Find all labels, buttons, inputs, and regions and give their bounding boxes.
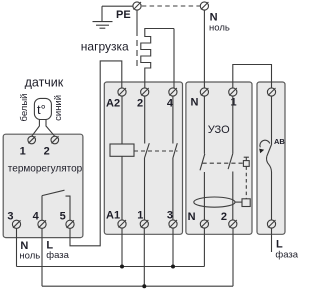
svg-text:2: 2 — [221, 211, 227, 223]
wire breaker bottom stub — [271, 228, 273, 252]
RCD pole 2 — [228, 96, 233, 220]
RCD (УЗО) box — [186, 82, 252, 234]
contactor terminal A1 — [118, 220, 126, 228]
mechanical link dashed — [134, 150, 178, 152]
dashed wire PE to N — [142, 5, 200, 7]
breaker terminal top — [267, 88, 275, 96]
svg-text:ноль: ноль — [19, 251, 40, 262]
wire RCD 1 to breaker top — [233, 65, 272, 88]
contactor terminal 3 — [169, 220, 177, 228]
svg-text:фаза: фаза — [46, 250, 69, 261]
junction A1-N bus — [120, 265, 124, 269]
wire therm3 drop — [16, 228, 18, 266]
terminal 4 — [38, 220, 46, 228]
heating cable meander — [141, 29, 174, 89]
svg-text:A1: A1 — [106, 209, 120, 221]
contactor contact pole 4-3 — [173, 96, 177, 220]
sensor terminal 2 — [51, 136, 59, 144]
wire pole1 drop — [143, 228, 145, 286]
wire ground to PE terminal — [102, 5, 133, 7]
RCD terminal 1 — [229, 88, 237, 96]
svg-text:N: N — [191, 97, 199, 109]
trip unit square — [242, 199, 250, 207]
terminal 5 — [66, 220, 74, 228]
svg-text:PE: PE — [116, 9, 131, 21]
svg-text:1: 1 — [20, 146, 26, 158]
svg-text:1: 1 — [137, 209, 143, 221]
svg-text:3: 3 — [167, 209, 173, 221]
RCD terminal N top — [200, 88, 208, 96]
svg-text:ноль: ноль — [209, 22, 230, 33]
svg-text:терморегулятор: терморегулятор — [8, 163, 83, 174]
sensor terminal 1 — [28, 136, 36, 144]
wire N bus rise to RCD N — [203, 228, 205, 266]
terminal 3 — [12, 220, 20, 228]
RCD mechanical link dashed — [203, 162, 244, 164]
svg-text:фаза: фаза — [275, 250, 298, 261]
svg-text:белый: белый — [19, 94, 30, 122]
wire L bus — [42, 285, 233, 287]
RCD test button — [243, 157, 249, 166]
wire therm4 drop — [41, 228, 43, 286]
svg-text:t°: t° — [37, 102, 46, 117]
thermostat relay contact 4-5 — [42, 190, 70, 220]
wire pole3 drop — [172, 228, 174, 266]
terminal N top — [200, 2, 208, 10]
svg-text:УЗО: УЗО — [208, 124, 230, 136]
dashed link to trip unit — [245, 166, 247, 198]
contactor contact pole 2-1 — [145, 96, 150, 220]
contactor box — [104, 82, 182, 234]
load phase wire loop therm5 to A2 — [70, 61, 122, 246]
RCD terminal N bottom — [200, 220, 208, 228]
wire PE shield drop — [136, 10, 138, 30]
sensor bulb t° — [32, 98, 55, 136]
wire N drop to RCD — [203, 10, 205, 88]
wire N bus — [17, 266, 205, 268]
contactor terminal 1 — [140, 220, 148, 228]
svg-text:нагрузка: нагрузка — [81, 40, 129, 54]
svg-text:2: 2 — [44, 146, 50, 158]
breaker (АВ) box — [257, 82, 285, 234]
contactor terminal A2 — [118, 88, 126, 96]
svg-text:АВ: АВ — [274, 137, 285, 146]
svg-text:5: 5 — [60, 210, 66, 222]
RCD pole N — [200, 96, 205, 220]
toroid ellipse — [194, 197, 235, 207]
svg-text:датчик: датчик — [25, 75, 64, 89]
wire A1 drop — [121, 228, 123, 266]
breaker arrowhead — [259, 149, 264, 154]
svg-text:3: 3 — [7, 210, 13, 222]
contactor terminal 2 — [141, 88, 149, 96]
thermostat box — [3, 134, 83, 237]
contactor coil U1 — [121, 96, 123, 144]
junction pole1-L bus — [142, 284, 146, 288]
svg-text:A2: A2 — [106, 97, 120, 109]
svg-text:2: 2 — [137, 97, 143, 109]
wire L bus rise to RCD 2 — [232, 228, 234, 286]
svg-text:синий: синий — [53, 95, 64, 121]
junction pole3-N bus — [171, 265, 175, 269]
ground — [93, 6, 113, 28]
toroid to trip link — [235, 201, 242, 203]
terminal PE — [133, 2, 141, 10]
heating cable right rail — [173, 29, 175, 89]
contactor terminal 4 — [169, 88, 177, 96]
svg-text:N: N — [188, 211, 196, 223]
breaker symbol — [260, 96, 272, 220]
breaker terminal bottom — [267, 220, 275, 228]
svg-text:4: 4 — [33, 210, 40, 222]
RCD terminal 2 bottom — [229, 220, 237, 228]
svg-text:1: 1 — [231, 97, 237, 109]
